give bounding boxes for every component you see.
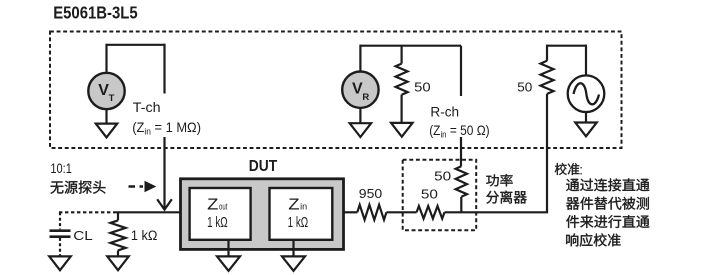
svg-text:10:1: 10:1 <box>50 161 72 176</box>
wire 1k to ground <box>117 250 119 256</box>
resistor 50 series <box>417 206 445 219</box>
wire VT to ground <box>105 109 107 123</box>
wire CL dashed drop <box>59 212 61 229</box>
wire R-ch top rail <box>360 45 461 47</box>
svg-text:in: in <box>300 201 307 211</box>
wire 950 to 50 <box>386 211 416 213</box>
DUT body <box>181 179 344 250</box>
resistor 50 splitter <box>456 166 467 197</box>
svg-text:V: V <box>98 82 109 99</box>
wire DUT to 950 <box>343 211 357 213</box>
wire 50 to source corner <box>445 211 549 213</box>
resistor 1 kOhm load <box>110 220 125 250</box>
svg-text:V: V <box>352 81 363 98</box>
voltmeter VR <box>342 72 378 108</box>
svg-text:Z: Z <box>288 196 299 213</box>
wire source top rail <box>547 45 586 47</box>
svg-text:950: 950 <box>359 186 382 201</box>
wire DUT Zin ground stub <box>292 240 294 257</box>
wire DUT Zout ground stub <box>227 240 229 257</box>
wire T-ch top rail <box>107 44 165 46</box>
wire node to DUT <box>114 211 182 213</box>
wire source circle drop <box>585 45 587 76</box>
calibration note line 3 (Chinese) <box>566 215 649 228</box>
svg-text:1 kΩ: 1 kΩ <box>131 228 158 243</box>
ground VR <box>350 123 372 137</box>
svg-text:R-ch: R-ch <box>430 105 459 121</box>
calibration note line 4 (Chinese) <box>566 233 620 246</box>
wire 50ohm R-ch drop <box>401 46 403 64</box>
wire CL dashed link <box>59 211 114 213</box>
svg-text:1 kΩ: 1 kΩ <box>288 215 309 231</box>
svg-text:T: T <box>109 93 115 104</box>
ground DUT Zout <box>217 256 240 270</box>
svg-text:R: R <box>362 92 369 103</box>
wire CL dashed to ground <box>59 238 61 256</box>
svg-text:DUT: DUT <box>249 158 278 175</box>
wire VR to ground <box>359 108 361 123</box>
svg-text:50: 50 <box>421 187 438 202</box>
source oscillator <box>568 75 605 112</box>
wire splitter resistor to node <box>460 197 462 213</box>
wire source 50 drop <box>546 45 548 61</box>
label calibration heading (Chinese) <box>555 163 580 175</box>
svg-text:T-ch: T-ch <box>133 100 161 116</box>
wire 1k stub <box>117 212 119 220</box>
voltmeter VT <box>88 73 124 109</box>
capacitor CL <box>50 229 71 232</box>
svg-text:50: 50 <box>414 79 431 94</box>
wire VR drop <box>359 45 361 72</box>
DUT Zin block <box>270 188 333 240</box>
svg-text:(Zin = 50 Ω): (Zin = 50 Ω) <box>429 123 489 140</box>
svg-text:50: 50 <box>434 168 451 183</box>
power splitter dashed box <box>403 160 477 230</box>
svg-text:(Zin = 1 MΩ): (Zin = 1 MΩ) <box>132 120 201 137</box>
ground 1k load <box>107 256 129 270</box>
wire T-ch probe line upper <box>163 44 165 94</box>
wire 50ohm to ground <box>401 95 403 123</box>
label passive probe (Chinese) <box>50 180 105 193</box>
wire source to ground <box>585 112 587 123</box>
instrument dashed enclosure E5061B <box>50 32 622 149</box>
resistor 50 (source output) <box>541 61 554 94</box>
wire source line down <box>546 94 548 212</box>
svg-text:1 kΩ: 1 kΩ <box>207 215 228 231</box>
calibration note line 1 (Chinese) <box>566 178 649 191</box>
arrowhead into node <box>157 199 172 209</box>
resistor 50 (R-ch termination) <box>396 64 408 95</box>
dashed pointer arrow <box>129 185 144 187</box>
ground CL <box>49 256 71 270</box>
ground source <box>575 123 597 137</box>
DUT Zout block <box>190 188 251 240</box>
svg-text:out: out <box>219 201 228 211</box>
wire R-ch stub upper <box>460 46 462 96</box>
ground DUT Zin <box>282 256 305 270</box>
calibration note line 2 (Chinese) <box>566 197 649 210</box>
svg-text:50: 50 <box>517 79 532 94</box>
ground VT <box>96 124 118 138</box>
svg-text:CL: CL <box>73 228 93 243</box>
wire T-ch probe line lower <box>163 137 165 209</box>
svg-text:Z: Z <box>207 196 218 213</box>
wire R-ch line to splitter <box>460 137 462 166</box>
ground 50ohm R-ch <box>391 123 413 137</box>
wire VT drop <box>105 44 107 73</box>
label power splitter (Chinese) <box>486 174 513 186</box>
svg-text:E5061B-3L5: E5061B-3L5 <box>53 2 138 22</box>
resistor 950 <box>357 205 386 220</box>
svg-text::: : <box>579 162 583 177</box>
